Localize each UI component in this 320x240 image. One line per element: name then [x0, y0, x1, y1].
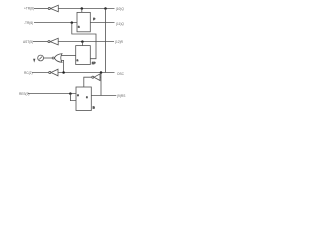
wire W5R (FF3 output to pin label R5): [91, 95, 116, 97]
wire X1 to NOR G1 output bubble: [44, 57, 53, 59]
inverter U3 (left-pointing triangle): [51, 69, 58, 76]
wire W4 left segment (pin to inverter U3 bubble): [32, 72, 49, 74]
inverter U2 (left-pointing triangle): [50, 38, 58, 45]
NOR gate G1 (left-facing): [54, 54, 62, 63]
svg-text:o: o: [77, 94, 79, 97]
wire vertical rail from N2 down to W4: [105, 9, 107, 73]
svg-text:a: a: [78, 26, 80, 29]
wire clock branch from N3 down, right, down to FF2 right pin: [72, 23, 96, 59]
svg-text:(9)RS: (9)RS: [117, 94, 125, 98]
svg-text:(11)Q: (11)Q: [116, 22, 124, 26]
wire W4 right segment across to OSC pin label: [58, 72, 115, 74]
wire W2R (FF1 Q output to pin label R2): [90, 22, 114, 24]
flip-flop FF2: [76, 46, 91, 65]
flip-flop FF1: [77, 12, 90, 31]
svg-text:1P: 1P: [92, 61, 96, 65]
wire feedback vertical from N6 down to FF3 output wire: [100, 73, 102, 96]
oscillator symbol X1 (circle with slash): [38, 55, 44, 61]
inverter U3 bubble: [49, 71, 51, 73]
svg-text:(10)Q: (10)Q: [116, 7, 125, 11]
NOR G1 output bubble: [52, 57, 54, 59]
node N7 junction dot on W5: [69, 92, 72, 95]
wire W2 (clock pin into FF1 left): [34, 22, 77, 24]
wire G1 input1 to FF2 left pin: [61, 55, 75, 57]
svg-text:+TR(8): +TR(8): [24, 7, 34, 11]
node N1 junction dot on W1 above FF1: [81, 7, 84, 10]
wire W3 left segment (pin to inverter U2 bubble): [33, 41, 48, 43]
inverter U4 bubble: [92, 76, 94, 78]
svg-text:B: B: [93, 106, 95, 110]
wire G1 input2 elbow down to W4: [61, 60, 64, 72]
inverter U1 (left-pointing triangle): [51, 5, 59, 12]
svg-text:OSC: OSC: [117, 72, 125, 76]
node N6 junction dot on W4 feedback tap: [100, 71, 103, 74]
svg-text:P: P: [93, 17, 95, 21]
oscillator X1 wedge mark: [33, 59, 35, 63]
wire U4 output left then down into FF3 top: [84, 77, 92, 87]
svg-text:RES(9): RES(9): [19, 92, 29, 96]
flip-flop FF3: [76, 87, 91, 111]
wire U4 input tap to feedback vertical: [100, 76, 101, 78]
inverter U1 bubble: [48, 7, 50, 9]
inverter U4 (left-pointing triangle): [94, 74, 100, 81]
wire W1 right segment (U1 input to pin label R1): [58, 8, 114, 10]
wire W5 branch from N7 down into FF3 second left pin: [70, 94, 76, 101]
wire W5 (reset pin into FF3 left): [28, 93, 76, 95]
oscillator X1 slash mark: [39, 57, 42, 60]
wire W1 left segment (pin 8 to inverter U1 bubble): [34, 8, 48, 10]
node N4 junction dot on W3 above FF2: [81, 40, 84, 43]
node N2 junction dot on W1 at vertical rail: [104, 7, 107, 10]
svg-text:RC(2): RC(2): [24, 71, 33, 75]
wire W3 right segment (U2 input across to pin label R3): [58, 41, 114, 43]
svg-text:a: a: [77, 59, 79, 62]
svg-text:(12)R: (12)R: [115, 40, 124, 44]
node N5 junction dot W4 x G1 branch: [62, 71, 65, 74]
svg-text:AST(5): AST(5): [23, 40, 33, 44]
node N3 junction dot on W2: [71, 21, 74, 24]
wire stub from N1 into FF1 top: [81, 9, 83, 13]
wire stub from N4 into FF2 top: [81, 42, 83, 46]
inverter U2 bubble: [48, 41, 50, 43]
svg-text:-TR(6): -TR(6): [24, 21, 33, 25]
svg-text:s: s: [86, 96, 88, 99]
